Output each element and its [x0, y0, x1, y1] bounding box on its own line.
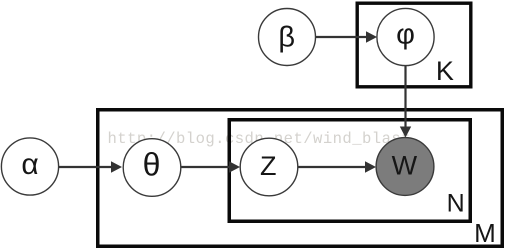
- svg-text:φ: φ: [396, 19, 415, 51]
- svg-text:N: N: [447, 190, 465, 218]
- svg-text:Z: Z: [260, 151, 277, 181]
- svg-text:β: β: [278, 22, 295, 54]
- svg-text:K: K: [436, 56, 454, 86]
- svg-text:W: W: [392, 151, 418, 181]
- svg-text:α: α: [21, 148, 38, 181]
- svg-text:M: M: [474, 218, 496, 248]
- svg-text:θ: θ: [143, 147, 161, 183]
